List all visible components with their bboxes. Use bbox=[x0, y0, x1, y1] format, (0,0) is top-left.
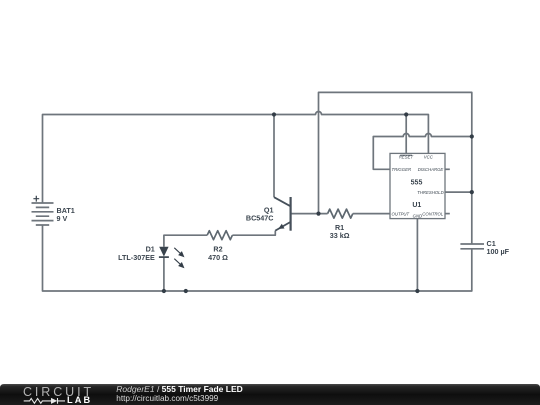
junction ground rail node bbox=[184, 289, 188, 293]
capacitor C1 plates bbox=[460, 244, 484, 249]
svg-text:THRESHOLD: THRESHOLD bbox=[417, 190, 444, 195]
wire Q1 collector riser bbox=[273, 115, 275, 198]
IC U1 555 timer box bbox=[390, 153, 445, 218]
battery plus sign bbox=[33, 196, 39, 202]
wire TRIGGER to THRESHOLD net with hops over RESET and VCC risers bbox=[373, 134, 472, 170]
pin RESET overline bbox=[400, 154, 412, 156]
wire Q1 base to R1 and R1 to OUTPUT pin bbox=[291, 213, 390, 215]
wire top loop: Q1 base node up, across, down to C1 top bbox=[319, 92, 472, 244]
junction ground rail / GND pin bbox=[415, 289, 419, 293]
wire positive rail: battery + up and across to VCC, hop over Q1 base riser bbox=[43, 112, 429, 204]
logo diode triangle bbox=[51, 398, 57, 404]
svg-text:DISCHARGE: DISCHARGE bbox=[418, 167, 444, 172]
wire ground rail: battery - down, across, up to C1 bottom bbox=[43, 225, 472, 291]
svg-text:470 Ω: 470 Ω bbox=[208, 253, 228, 262]
svg-text:RodgerE1 / 555 Timer Fade LED: RodgerE1 / 555 Timer Fade LED bbox=[116, 384, 242, 394]
wire GND pin to ground rail bbox=[416, 219, 418, 291]
battery BAT1 plates bbox=[32, 203, 54, 225]
wire DISCHARGE pin stub bbox=[445, 168, 450, 170]
transistor Q1 emitter arrow bbox=[278, 224, 284, 229]
svg-text:U1: U1 bbox=[412, 202, 421, 209]
svg-text:CONTROL: CONTROL bbox=[422, 212, 444, 217]
svg-text:555: 555 bbox=[411, 179, 423, 186]
svg-text:9 V: 9 V bbox=[57, 214, 68, 223]
logo resistor-diode glyph bbox=[24, 398, 65, 404]
svg-text:33 kΩ: 33 kΩ bbox=[330, 231, 350, 240]
wire RESET pin riser bbox=[405, 115, 407, 154]
wire D1 cathode to ground rail bbox=[163, 257, 165, 291]
junction ground rail / D1 bbox=[162, 289, 166, 293]
resistor R1 bbox=[328, 209, 353, 218]
svg-text:LTL-307EE: LTL-307EE bbox=[118, 253, 155, 262]
junction Q1 base / top loop riser bbox=[316, 212, 320, 216]
LED D1 cathode bar bbox=[159, 256, 169, 258]
svg-text:100 µF: 100 µF bbox=[487, 247, 510, 256]
svg-text:VCC: VCC bbox=[424, 155, 434, 160]
svg-text:http://circuitlab.com/c5t3999: http://circuitlab.com/c5t3999 bbox=[116, 394, 218, 403]
svg-text:BC547C: BC547C bbox=[246, 214, 274, 223]
junction positive rail / RESET riser bbox=[404, 112, 408, 116]
resistor R2 bbox=[207, 231, 232, 240]
svg-text:TRIGGER: TRIGGER bbox=[392, 167, 412, 172]
junction trigger net / right rail bbox=[470, 134, 474, 138]
transistor Q1 body bbox=[274, 197, 291, 231]
svg-text:LAB: LAB bbox=[67, 395, 92, 405]
junction positive rail / Q1 collector riser bbox=[272, 112, 276, 116]
wire CONTROL pin stub bbox=[445, 213, 450, 215]
wire THRESHOLD pin to right rail bbox=[445, 191, 472, 193]
junction THRESHOLD / right rail bbox=[470, 190, 474, 194]
LED D1 triangle bbox=[159, 247, 168, 257]
svg-text:GND: GND bbox=[413, 214, 423, 219]
svg-text:OUTPUT: OUTPUT bbox=[392, 212, 410, 217]
wire Q1 emitter to R2 and R2 to D1 bbox=[164, 231, 275, 247]
LED light emission arrows bbox=[174, 248, 183, 267]
